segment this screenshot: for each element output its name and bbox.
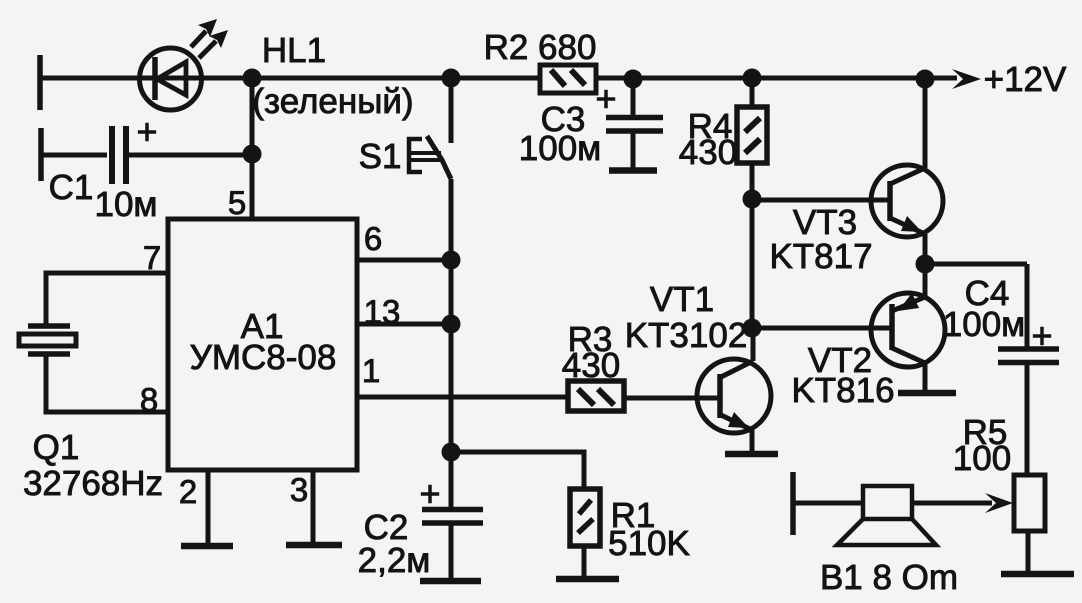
svg-text:KT816: KT816 — [791, 371, 894, 410]
resistor R3 — [568, 381, 719, 411]
ground (R1) — [556, 576, 619, 583]
capacitor C4 — [998, 264, 1059, 475]
node: rail / C3 — [624, 70, 643, 89]
transistor VT1 (KT3102, NPN) — [697, 328, 771, 453]
svg-text:S1: S1 — [359, 137, 402, 176]
ground (C2) — [420, 578, 481, 585]
svg-text:3: 3 — [290, 471, 308, 508]
wire: node to VT1 collector / VT2 base — [750, 199, 755, 328]
wire: speaker to R5 wiper arrow — [912, 501, 992, 506]
wire: pin 1 to R3 — [357, 395, 568, 400]
wire: node to VT3 base — [752, 198, 888, 203]
node: VT3 emitter / VT2 emitter / C4 — [916, 255, 935, 274]
svg-text:510K: 510K — [608, 524, 690, 563]
node: rail / HL1 / pin5 — [243, 69, 262, 88]
wire: VT2/VT3 emitters to C4 — [925, 262, 1027, 267]
svg-text:HL1: HL1 — [262, 31, 326, 70]
svg-text:C1: C1 — [49, 168, 94, 207]
svg-text:+: + — [1031, 315, 1052, 356]
resistor R2 — [540, 65, 596, 93]
wire: pin 7 to crystal — [46, 273, 168, 326]
wire: +12V top rail — [40, 76, 957, 81]
svg-text:32768Hz: 32768Hz — [23, 464, 163, 503]
ground (VT2 collector) — [898, 390, 956, 397]
transistor VT2 (KT816, PNP) — [871, 264, 945, 392]
svg-text:R2 680: R2 680 — [484, 28, 597, 67]
node: VT1 collector / VT2 base — [743, 319, 762, 338]
svg-text:100м: 100м — [519, 129, 601, 168]
svg-text:6: 6 — [364, 220, 382, 257]
svg-text:7: 7 — [143, 239, 161, 276]
node: rail / R4 — [743, 69, 762, 88]
node: pin 13 — [442, 315, 461, 334]
left terminal (top rail input) — [37, 55, 43, 110]
node: C2 / R1 — [442, 443, 461, 462]
svg-text:430: 430 — [562, 346, 620, 385]
wire: node to VT2 base — [752, 326, 890, 331]
ground (pin 3) — [286, 542, 342, 549]
wire: crystal to pin 8 — [46, 354, 168, 412]
svg-text:1: 1 — [362, 352, 380, 389]
capacitor C3 — [606, 78, 663, 169]
svg-text:B1 8 Om: B1 8 Om — [820, 558, 958, 597]
svg-text:(зеленый): (зеленый) — [252, 82, 413, 121]
switch S1 — [407, 78, 451, 179]
wire: pin 2 — [206, 470, 211, 544]
node: C1 / pin5 — [243, 145, 262, 164]
svg-text:100: 100 — [953, 439, 1011, 478]
svg-text:KT817: KT817 — [769, 237, 872, 276]
svg-text:430: 430 — [679, 133, 737, 172]
node: rail / S1 — [442, 69, 461, 88]
potentiometer R5 — [1014, 475, 1045, 573]
ground (C3) — [609, 167, 657, 174]
svg-text:Q1: Q1 — [33, 428, 80, 467]
svg-text:+: + — [136, 111, 157, 152]
svg-text:+: + — [595, 78, 616, 119]
capacitor C2 — [422, 510, 483, 581]
svg-text:8: 8 — [140, 381, 158, 418]
crystal Q1 — [19, 326, 76, 354]
node: S1 / pin 6 — [442, 251, 461, 270]
+12V arrow — [952, 69, 981, 89]
ground (pin 2) — [181, 543, 233, 550]
svg-text:10м: 10м — [95, 185, 158, 224]
node: rail / VT3 collector — [916, 70, 935, 89]
svg-text:+: + — [419, 473, 440, 514]
resistor R4 — [737, 78, 767, 199]
LED HL1 — [140, 19, 229, 110]
svg-text:5: 5 — [228, 184, 246, 221]
ground (R5) — [1001, 571, 1074, 578]
svg-text:2,2м: 2,2м — [358, 541, 431, 580]
IC A1 УМС8-08 — [168, 219, 357, 470]
wire: terminal to speaker — [793, 501, 863, 506]
node: R4 / VT3 base — [743, 190, 762, 209]
ground (VT1 emitter) — [725, 451, 778, 458]
wire: pin 3 — [311, 470, 316, 543]
svg-text:2: 2 — [179, 473, 197, 510]
wire: pin 13 — [357, 322, 451, 327]
speaker B1 terminal — [790, 472, 796, 535]
wire: S1 to pin6/pin13/C2 — [449, 179, 454, 509]
svg-text:VT1: VT1 — [650, 280, 714, 319]
svg-text:100м: 100м — [943, 305, 1025, 344]
speaker B1 — [837, 486, 936, 545]
svg-text:KT3102: KT3102 — [625, 316, 748, 355]
resistor R1 — [570, 489, 600, 578]
wire: pin 6 — [357, 258, 451, 263]
svg-text:УМС8-08: УМС8-08 — [190, 338, 337, 377]
svg-text:+12V: +12V — [984, 60, 1067, 99]
wire: pin 5 — [250, 78, 255, 219]
wire: C2 node to R1 — [451, 452, 584, 488]
transistor VT3 (KT817, NPN) — [871, 78, 943, 264]
capacitor C1 — [41, 126, 252, 184]
